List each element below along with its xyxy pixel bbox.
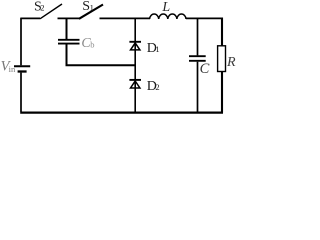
svg-text:L: L xyxy=(161,0,170,15)
svg-text:2: 2 xyxy=(40,3,44,13)
wire from top rail down to capacitor Cb xyxy=(66,18,68,39)
wire left vertical from battery down to bottom rail xyxy=(20,73,22,112)
battery Vin top (long) plate xyxy=(14,65,30,67)
diode D1 triangle (pointing up) xyxy=(131,43,140,50)
capacitor Cb bottom plate xyxy=(58,43,80,45)
capacitor C top plate xyxy=(189,55,206,57)
wire from S1 contact to inductor (junction T to D1 at x=135) xyxy=(100,17,151,19)
diode D1 cathode bar xyxy=(129,41,141,43)
wire from resistor R down to bottom rail xyxy=(221,72,223,113)
capacitor C bottom plate xyxy=(189,60,206,62)
resistor R rectangle xyxy=(218,46,226,72)
wire from Cb down then right to diode column (middle rail) xyxy=(66,45,137,66)
svg-text:in: in xyxy=(9,64,16,74)
diode D2 cathode bar xyxy=(129,79,141,81)
svg-text:C: C xyxy=(200,61,210,77)
wire from inductor to top-right corner xyxy=(186,17,222,19)
svg-text:2: 2 xyxy=(155,82,159,92)
battery Vin bottom (short thick) plate xyxy=(18,70,27,72)
wire diode column vertical x=135 from top rail to bottom rail xyxy=(134,18,136,112)
svg-text:1: 1 xyxy=(90,2,94,12)
wire from capacitor C down to bottom rail xyxy=(197,62,199,113)
wire bottom rail xyxy=(20,111,223,113)
wire between S2 contact and S1 hinge (junction T at x=66.5) xyxy=(58,17,80,19)
svg-text:R: R xyxy=(226,55,236,70)
diode D2 triangle (pointing up) xyxy=(131,81,140,88)
wire left vertical from top corner down to battery xyxy=(20,18,22,66)
svg-text:1: 1 xyxy=(155,44,159,54)
capacitor Cb top plate xyxy=(58,39,80,41)
wire top-left horizontal from left corner to S2 hinge xyxy=(21,17,40,19)
inductor L (4 humps) xyxy=(150,14,186,19)
svg-text:b: b xyxy=(90,39,94,49)
wire from top-right corner down to resistor R xyxy=(221,18,223,46)
switch S1 blade (open, diagonal, thick) xyxy=(79,5,103,19)
switch S2 blade (open, diagonal) xyxy=(40,4,62,19)
wire from top rail down to capacitor C xyxy=(197,18,199,55)
